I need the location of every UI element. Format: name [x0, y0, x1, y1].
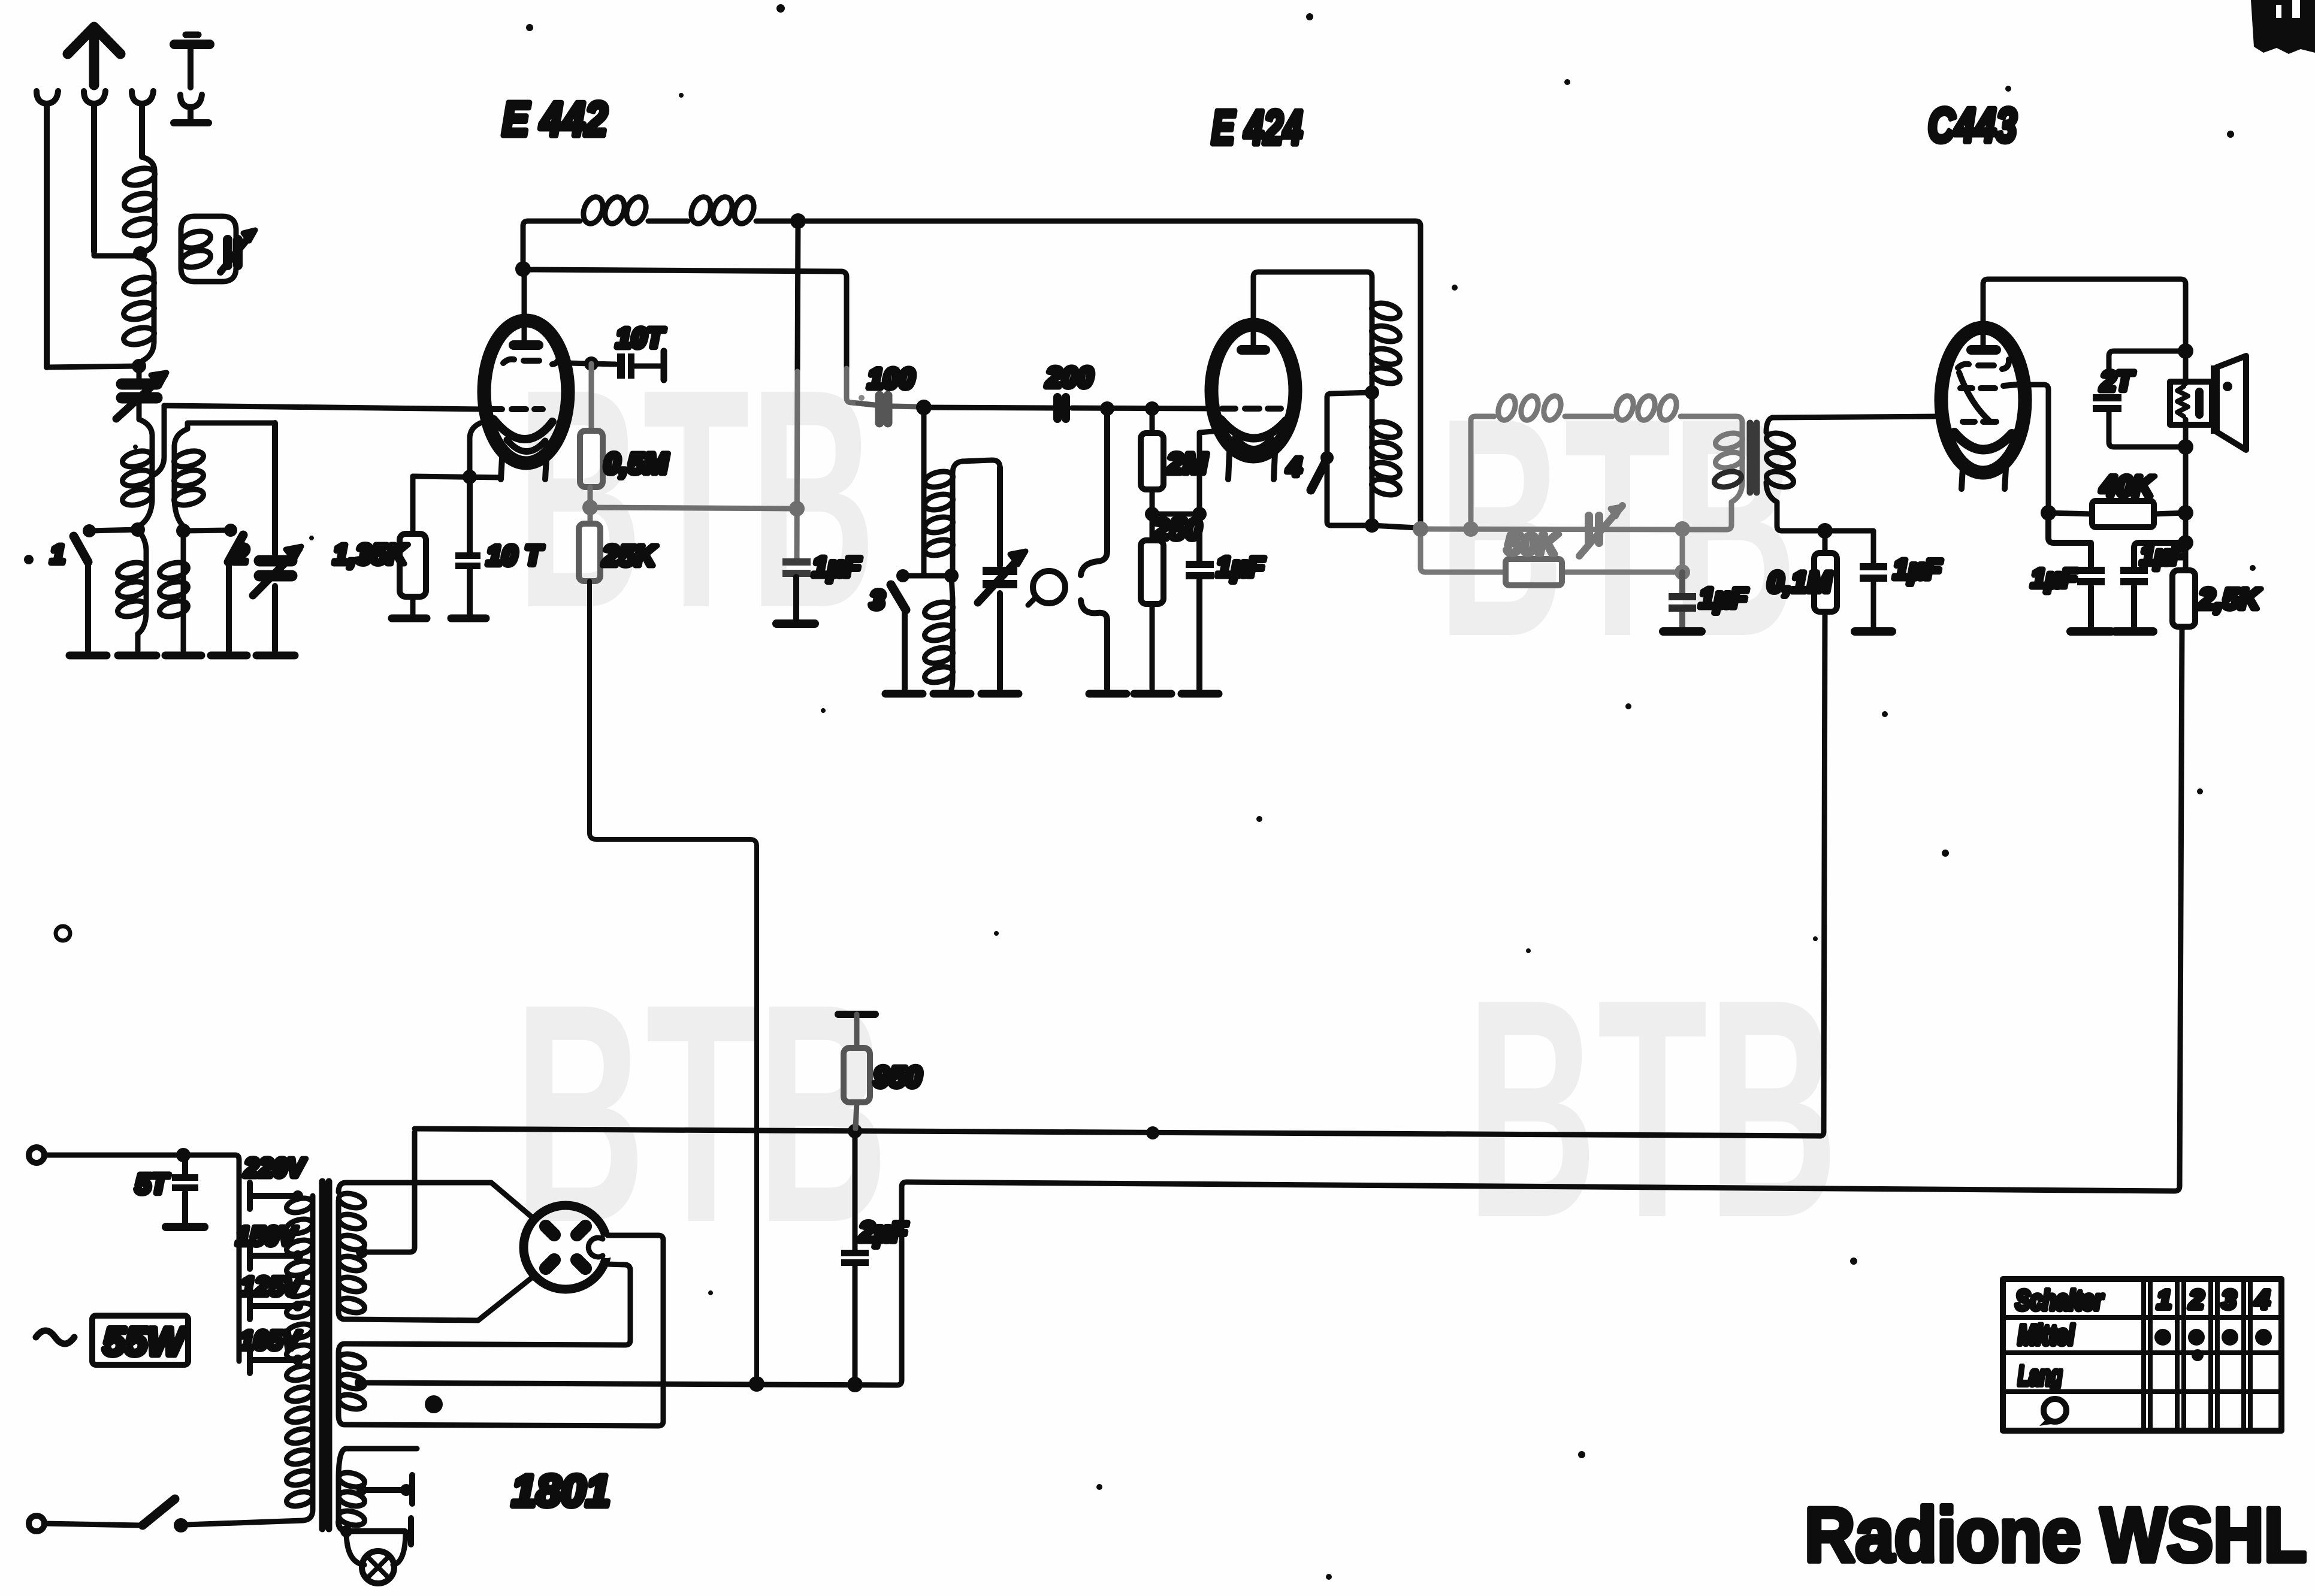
SEC6 power supply — [29, 1132, 663, 1583]
svg-text:E 442: E 442 — [502, 92, 608, 146]
tap 150V — [250, 1243, 295, 1269]
svg-text:250: 250 — [1153, 514, 1201, 546]
capacitor 100 — [858, 403, 920, 407]
svg-text:1,35K: 1,35K — [333, 539, 409, 570]
resistor 250 — [1150, 514, 1155, 689]
SEC2 E442 stage — [333, 92, 920, 1380]
svg-text:2T: 2T — [2100, 365, 2135, 397]
ground (trimmer 2) — [256, 652, 295, 660]
bandswitch coil left column upper — [139, 419, 152, 526]
node cathode bias junction — [1145, 507, 1159, 521]
bandswitch table frame — [2003, 1279, 2281, 1431]
svg-text:50K: 50K — [1505, 529, 1560, 561]
ground (right coil) — [165, 652, 201, 660]
svg-text:BTB: BTB — [514, 939, 888, 1287]
4V winding — [336, 1353, 341, 1415]
ground (jack) — [1089, 690, 1126, 698]
capacitor 2uF — [853, 1133, 858, 1380]
svg-text:10T: 10T — [616, 322, 666, 353]
tube E424 cathode arcs — [1221, 419, 1286, 439]
ground (1,35K) — [392, 615, 427, 622]
svg-text:220V: 220V — [244, 1153, 307, 1183]
grid feed corner — [155, 406, 164, 474]
ground (10T) — [451, 615, 486, 622]
resistor 50K — [1421, 533, 1679, 572]
node cap2/2,5K — [2178, 535, 2193, 551]
svg-text:0,5M: 0,5M — [604, 448, 669, 480]
tube E424 anode top cap bar — [1237, 345, 1270, 355]
node 950 resistor tap — [848, 1124, 862, 1138]
tap 125V — [250, 1293, 295, 1319]
switch 1 — [83, 524, 96, 537]
node screen/40K — [2041, 505, 2056, 521]
grid wire with 200pF — [924, 407, 1213, 409]
wire speaker bottom to 40K node — [2183, 447, 2189, 543]
svg-text:Radione WSHL: Radione WSHL — [1805, 1492, 2307, 1578]
grid leak tap down — [921, 407, 927, 575]
bandswitch coil right column upper — [174, 423, 188, 526]
cathode bias wire — [413, 476, 501, 477]
svg-text:1: 1 — [50, 540, 65, 569]
screen lead right — [2024, 385, 2048, 509]
decoupling line from rail — [797, 221, 798, 371]
capacitor 2T plates — [2093, 394, 2121, 401]
svg-text:100: 100 — [868, 362, 914, 394]
tube E424 filament legs — [1228, 453, 1275, 479]
ground (1uF screen) — [776, 619, 815, 628]
node anode/speaker top — [2178, 343, 2193, 359]
svg-text:3: 3 — [2222, 1285, 2236, 1314]
tube E442 anode top cap bar — [509, 340, 543, 350]
rectifier tube 1801 — [524, 1205, 608, 1289]
ground (trimmer osc) — [981, 690, 1019, 698]
capacitor 5T — [182, 1155, 188, 1223]
svg-text:Mittel: Mittel — [2018, 1319, 2075, 1350]
capacitor 200 — [1057, 397, 1066, 419]
feedback coil upper — [1370, 296, 1375, 386]
table speaker glyph — [2044, 1399, 2066, 1422]
HV secondary winding — [339, 1183, 535, 1220]
IF choke coil 2 — [1613, 394, 1637, 422]
tube C443 inner diagonal — [1959, 373, 1989, 421]
WATERMARKS — [514, 325, 1838, 1287]
SEC7 rails — [361, 194, 2182, 1392]
node 50K right — [1675, 564, 1690, 580]
ground (5T) — [166, 1223, 204, 1231]
tube C443 grid3 dashes — [1963, 419, 1996, 425]
capacitor 10T (cathode bypass) — [467, 477, 473, 615]
node primary feed — [1463, 521, 1479, 537]
svg-text:55W: 55W — [103, 1319, 187, 1364]
tap 105V — [250, 1347, 295, 1373]
filament wire lower — [339, 1264, 630, 1353]
svg-text:0,1M: 0,1M — [1767, 567, 1832, 598]
capacitor 1uF (screen) — [782, 558, 811, 566]
choke coil B — [688, 194, 714, 226]
primary feed left vertical — [1468, 421, 1474, 525]
resistor 2M — [1145, 401, 1159, 416]
ground (250) — [1134, 690, 1171, 698]
wire node B to fork1 — [47, 366, 139, 367]
svg-text:1µF: 1µF — [2140, 541, 2187, 570]
anode lead — [522, 271, 527, 340]
svg-text:1µF: 1µF — [1699, 582, 1748, 613]
svg-text:1801: 1801 — [512, 1466, 611, 1516]
wave trap trimmer capacitor — [228, 240, 238, 265]
ground (1uF plate) — [2115, 627, 2153, 636]
svg-text:1: 1 — [2157, 1285, 2171, 1314]
IF choke coil 1 — [1471, 416, 1612, 421]
switch 3 — [896, 569, 909, 582]
tube E442 screen dashes — [503, 355, 559, 364]
tube E442 grid dashes — [489, 406, 543, 412]
node between coils — [1365, 385, 1379, 400]
primary winding — [186, 1196, 313, 1525]
capacitor 1uF (grid side) — [2048, 513, 2091, 627]
node choke junction — [790, 213, 806, 229]
IF primary winding — [1425, 433, 1742, 530]
rectifier socket key notch — [596, 1237, 618, 1258]
antenna coil L2 lower — [140, 258, 154, 361]
tap 220V — [250, 1183, 295, 1209]
tube C443 grid1 dashes — [1958, 359, 2009, 369]
cathode stub to envelope — [470, 423, 480, 477]
tube C443 grid2 dashes — [1960, 385, 2017, 388]
wave trap coil — [180, 228, 213, 250]
node 0,5M/25K junction — [582, 500, 598, 515]
antenna symbol — [68, 27, 120, 85]
anode lead over the top — [1983, 279, 2186, 347]
resistor 40K — [2048, 513, 2186, 514]
phone jack circle — [1033, 571, 1065, 603]
anode lead to feedback coil — [1253, 272, 1372, 345]
AC symbol — [36, 1331, 74, 1344]
trimmer capacitor T1 (antenna) — [137, 366, 142, 419]
svg-text:4: 4 — [1286, 452, 1301, 482]
IF secondary winding — [1766, 416, 1940, 433]
tube E442 cathode arcs — [494, 419, 552, 439]
earth bottom bar — [174, 119, 208, 126]
ground (1uF cathode) — [1181, 690, 1219, 698]
lamp winding tap terminal — [356, 1485, 367, 1495]
jack lower contact — [1081, 600, 1107, 689]
svg-text:1µF: 1µF — [2031, 564, 2078, 593]
SEC3 detector E424 — [870, 101, 1417, 694]
bandswitch coil left column lower — [138, 530, 146, 651]
filament wire upper — [339, 1235, 663, 1426]
IF trimmer capacitor — [1589, 516, 1599, 543]
node cathode junction — [463, 470, 477, 484]
speaker horn — [2211, 365, 2219, 434]
B- rail — [361, 627, 2182, 1385]
padder trimmer line — [997, 467, 1003, 689]
tube E424 envelope — [1211, 325, 1295, 457]
ground (left coil) — [118, 652, 156, 660]
junction right column — [176, 524, 191, 538]
ground (1uF grid) — [2071, 627, 2111, 636]
pilot lamp winding — [339, 1449, 417, 1522]
tube C443 cathode arc — [1954, 433, 2012, 450]
resistor 25K — [588, 507, 593, 524]
trimmer capacitor (osc) — [983, 567, 1017, 575]
svg-text:2: 2 — [2189, 1285, 2204, 1314]
transformer core — [322, 1181, 329, 1529]
tube C443 filament legs — [1962, 468, 2006, 489]
switch 4 — [1320, 451, 1334, 464]
svg-text:1µF: 1µF — [812, 551, 862, 582]
svg-text:E 424: E 424 — [1211, 101, 1302, 154]
speaker driver box — [2183, 351, 2189, 447]
terminal bar — [661, 351, 667, 380]
antenna coil L1 upper — [142, 157, 155, 252]
wave trap loop — [181, 216, 236, 282]
svg-text:40K: 40K — [2100, 471, 2155, 503]
ground (switch 1) — [69, 652, 107, 660]
node 50K top — [1675, 521, 1690, 537]
ground (1uF IF) — [1663, 627, 1702, 636]
grid wire to E442 — [164, 406, 482, 409]
50K branch vertical — [1680, 529, 1685, 572]
bandswitch coil right column lower — [181, 531, 186, 651]
node 5T tap — [176, 1148, 191, 1162]
coupling wire anode to 100pF — [527, 270, 847, 368]
ground (1uF det) — [1855, 627, 1892, 636]
AVC line to 1uF node — [590, 507, 794, 509]
svg-text:3: 3 — [870, 585, 884, 615]
SEC4 IF transformer — [1421, 394, 1744, 585]
tube E442 filament legs — [501, 458, 546, 479]
wire fork2 to node A — [94, 252, 137, 256]
capacitor 1uF (det out) — [1825, 531, 1873, 627]
capacitor 1uF (cathode) — [1196, 514, 1202, 689]
plug fork 2 (antenna) — [84, 91, 105, 252]
oscillator coil lower — [951, 576, 953, 689]
resistor 0,1M — [1823, 531, 1828, 553]
svg-text:2: 2 — [233, 540, 249, 569]
plug fork 4 (earth) — [180, 95, 202, 119]
svg-text:BTB: BTB — [1467, 935, 1838, 1283]
plug fork 1 — [37, 91, 58, 367]
tube C443 anode top cap bar — [1966, 345, 2001, 355]
resistor 1,35K — [410, 476, 416, 615]
resistor 0,5M — [589, 364, 594, 431]
choke coil A — [580, 194, 606, 226]
speaker voice coil zigzag — [2177, 386, 2188, 416]
svg-text:200: 200 — [1045, 361, 1093, 393]
tube E424 grid dashes — [1222, 406, 1281, 412]
lamp circuit — [340, 1525, 352, 1537]
svg-text:Schalter: Schalter — [2015, 1284, 2104, 1316]
voltage tap bus — [235, 1155, 239, 1361]
earth terminal top bars — [186, 32, 198, 38]
oscillator coil upper — [953, 460, 1000, 572]
tube E442 envelope — [484, 321, 568, 463]
tube C443 envelope — [1941, 328, 2025, 473]
SEC1 antenna input — [37, 27, 482, 655]
capacitor 10T (antenna terminal) — [617, 353, 625, 379]
SEC5 output C443 — [1928, 98, 2262, 631]
node coil tap — [944, 569, 959, 583]
svg-text:950: 950 — [874, 1062, 921, 1093]
capacitor 2T loop — [2109, 351, 2186, 447]
node after 100pF — [916, 400, 932, 415]
speaker magnet bar — [2195, 388, 2204, 419]
node A junction — [133, 246, 147, 261]
blob junction — [425, 1395, 443, 1413]
svg-text:25K: 25K — [602, 540, 657, 572]
node 2uF on B- rail — [847, 1377, 863, 1392]
node secondary bottom — [1817, 523, 1833, 539]
SEC8 table and titles — [1805, 1279, 2307, 1578]
wire grid tap to trimmer 2 — [188, 421, 275, 426]
mains switch lever — [143, 1499, 175, 1525]
stray ring mark — [56, 926, 70, 941]
mains terminal lower — [29, 1516, 44, 1531]
node rail blob — [1146, 1126, 1159, 1139]
node coil bottom — [1365, 518, 1379, 533]
corner film mark — [2251, 0, 2315, 54]
junction left column — [131, 522, 145, 537]
node 40K right — [2178, 505, 2193, 521]
node B junction — [132, 359, 146, 373]
jack upper contact — [1081, 409, 1107, 575]
wire coil bottom to B+ node — [1372, 525, 1417, 528]
switch 2 — [224, 524, 237, 537]
svg-text:5T: 5T — [135, 1168, 170, 1199]
svg-text:1µF: 1µF — [1893, 554, 1942, 585]
IF core — [1750, 423, 1757, 492]
svg-text:C443: C443 — [1928, 98, 2017, 152]
svg-text:10 T: 10 T — [486, 540, 544, 571]
svg-text:4: 4 — [2254, 1285, 2269, 1314]
ground (osc coil) — [933, 690, 971, 698]
node screen drop on B- rail — [749, 1376, 764, 1392]
resistor 950 with terminal — [838, 1011, 875, 1018]
svg-text:2,5K: 2,5K — [2198, 584, 2262, 615]
B+ horizontal rail — [415, 614, 1825, 1136]
svg-text:1µF: 1µF — [1216, 551, 1265, 582]
55W box — [92, 1316, 188, 1365]
feedback coil lower — [1370, 392, 1375, 525]
mains terminal upper — [29, 1147, 44, 1163]
capacitor 1uF (IF agc) — [1679, 572, 1685, 627]
HV center tap to B+ — [356, 1246, 368, 1258]
node anode junction — [515, 261, 531, 277]
node B+ distribution — [1413, 521, 1428, 537]
switch 4 frame wires — [1327, 392, 1372, 525]
node speaker bottom — [2178, 439, 2193, 455]
screen supply drop line — [590, 581, 757, 1380]
cathode lead — [1199, 431, 1220, 514]
plug fork 3 — [132, 91, 153, 157]
svg-text:Lang: Lang — [2018, 1360, 2062, 1391]
ground (switch 3) — [885, 690, 923, 698]
4V center tap to B- rail — [355, 1377, 367, 1389]
B+ top rail with chokes — [523, 221, 1421, 525]
ground (switch 2) — [211, 652, 247, 660]
pilot lamp — [362, 1551, 394, 1583]
capacitor 1uF (plate side) — [2134, 543, 2186, 627]
screen lead to 10T trimmer cap — [568, 363, 616, 364]
trimmer capacitor T2 — [272, 423, 278, 651]
resistor 2,5K — [2183, 543, 2189, 570]
